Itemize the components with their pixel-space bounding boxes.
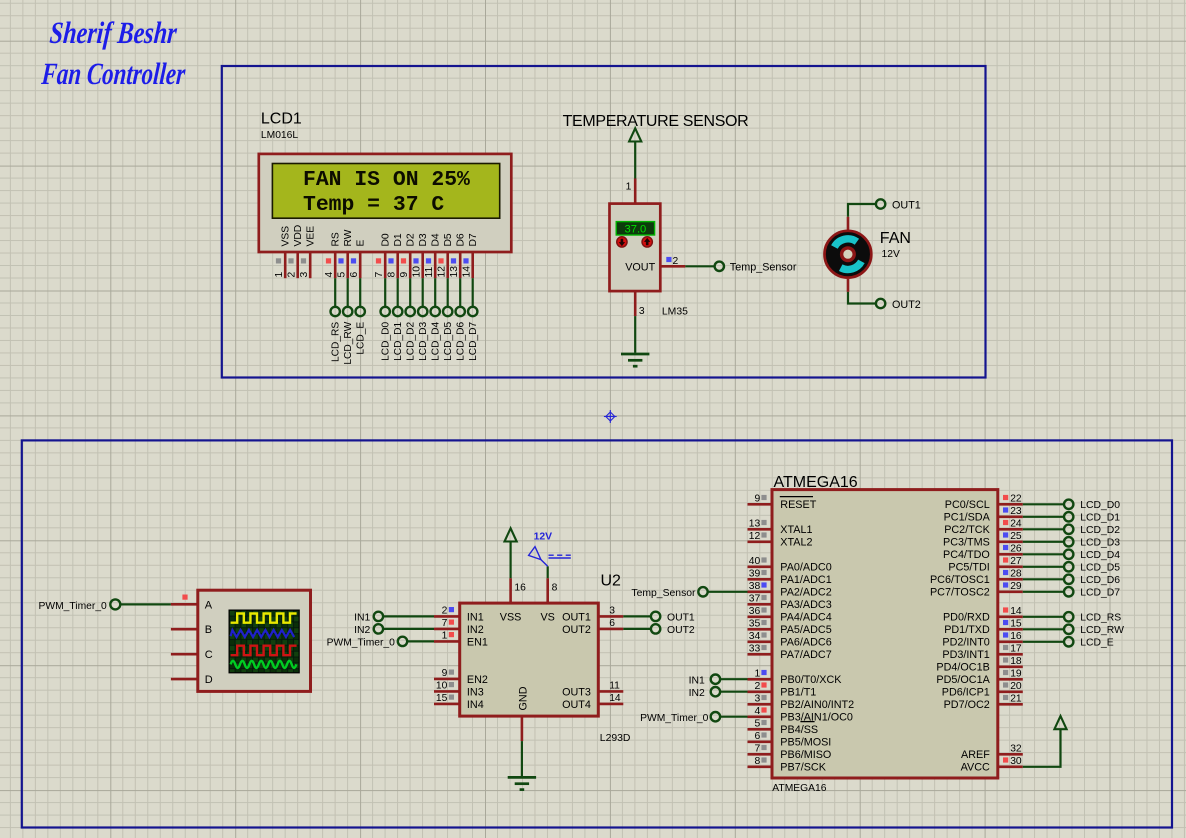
svg-text:TEMPERATURE SENSOR: TEMPERATURE SENSOR (563, 113, 749, 130)
U2 pin 1 (EN1) (434, 640, 460, 643)
svg-text:15: 15 (1010, 618, 1022, 629)
ATMEGA16 pin 18 (PD4/OC1B) (998, 665, 1023, 668)
svg-text:LCD_D7: LCD_D7 (1080, 588, 1120, 599)
ATMEGA16 pin 38 state square (761, 582, 766, 587)
ATMEGA16 pin 21 state square (1003, 695, 1008, 700)
svg-text:12V: 12V (882, 249, 900, 260)
svg-text:VS: VS (540, 612, 554, 624)
svg-text:16: 16 (514, 582, 526, 593)
ATMEGA16 pin 7 state square (761, 745, 766, 750)
wire IN1 to ATMEGA pin 1 (720, 678, 747, 680)
ATMEGA16 pin 9 state square (761, 495, 766, 500)
svg-text:12: 12 (749, 531, 761, 542)
svg-text:PD5/OC1A: PD5/OC1A (936, 674, 990, 686)
svg-text:PWM_Timer_0: PWM_Timer_0 (327, 638, 396, 649)
svg-text:GND: GND (517, 686, 529, 710)
U2 pin 9 (EN2) (434, 678, 460, 681)
terminal LCD_D1 (393, 307, 402, 316)
svg-text:PA5/ADC5: PA5/ADC5 (780, 624, 831, 636)
wire Temp_Sensor to ATMEGA pin 38 (708, 591, 748, 593)
svg-text:1: 1 (442, 630, 448, 641)
svg-text:OUT1: OUT1 (562, 611, 591, 623)
terminal LCD_D7 (468, 307, 477, 316)
terminal LCD_D4 (mcu side) (1064, 550, 1073, 559)
svg-text:E: E (355, 240, 366, 247)
ATMEGA16 pin 16 state square (1003, 632, 1008, 637)
ATMEGA16 pin 3 (PB2/AIN0/INT2) (748, 703, 773, 706)
ATMEGA16 pin 28 state square (1003, 570, 1008, 575)
LCD1 pin 4 (334, 252, 337, 278)
svg-text:IN1: IN1 (354, 613, 370, 624)
terminal IN1 (driver) (374, 612, 383, 621)
svg-text:C: C (205, 649, 213, 661)
wire LM35 pin 2 to terminal Temp_Sensor (685, 265, 714, 267)
svg-text:15: 15 (436, 693, 448, 704)
svg-text:FAN IS ON 25%: FAN IS ON 25% (303, 168, 470, 192)
ATMEGA16 pin 4 (PB3/AIN1/OC0) (748, 715, 773, 718)
terminal OUT2 (driver) (651, 624, 660, 633)
svg-text:LCD_D3: LCD_D3 (418, 321, 429, 360)
svg-text:7: 7 (374, 272, 385, 278)
ATMEGA16 pin 32 (AREF) (998, 753, 1023, 756)
svg-text:LCD_D6: LCD_D6 (456, 321, 467, 360)
svg-text:PB7/SCK: PB7/SCK (780, 762, 826, 774)
svg-text:13: 13 (449, 266, 460, 278)
U2 pin 11 (OUT3) (598, 690, 623, 693)
svg-text:Fan Controller: Fan Controller (40, 57, 187, 91)
svg-text:8: 8 (386, 272, 397, 278)
svg-text:40: 40 (749, 556, 761, 567)
terminal LCD_D4 (431, 307, 440, 316)
terminal LCD_D7 (mcu side) (1064, 587, 1073, 596)
LCD1 pin 5 (346, 252, 349, 278)
graph pin A (171, 603, 198, 606)
LCD1 pin 6 state square (351, 258, 356, 263)
top sub-circuit frame (222, 66, 986, 378)
wire PWM_Timer_0 to ATMEGA pin 4 (720, 716, 747, 718)
LCD1 pin 14 state square (463, 258, 468, 263)
ATMEGA16 pin 27 (PC5/TDI) (998, 565, 1023, 568)
mcu ATMEGA16 body (772, 490, 998, 778)
svg-text:6: 6 (609, 618, 615, 629)
svg-text:2: 2 (673, 256, 679, 267)
ATMEGA16 pin 2 (PB1/T1) (748, 690, 773, 693)
svg-text:3: 3 (609, 605, 615, 616)
ATMEGA16 pin 26 state square (1003, 545, 1008, 550)
svg-text:21: 21 (1010, 693, 1022, 704)
terminal IN1 (mcu side) (711, 675, 720, 684)
bottom sub-circuit frame (22, 440, 1172, 827)
ATMEGA16 pin 15 (PD1/TXD) (998, 628, 1023, 631)
ATMEGA16 pin 23 (PC1/SDA) (998, 515, 1023, 518)
svg-text:LCD1: LCD1 (261, 111, 302, 128)
ATMEGA16 pin 19 (PD5/OC1A) (998, 678, 1023, 681)
terminal LCD_RS (mcu side) (1064, 612, 1073, 621)
LCD1 pin 6 (359, 252, 362, 278)
LCD1 screen (272, 164, 499, 219)
svg-text:20: 20 (1010, 681, 1022, 692)
svg-text:PA6/ADC6: PA6/ADC6 (780, 637, 831, 649)
svg-text:D6: D6 (455, 233, 466, 246)
svg-text:5: 5 (336, 272, 347, 278)
LCD1 pin 11 (434, 252, 437, 278)
graph pin C (171, 653, 198, 656)
ground (driver) (508, 776, 536, 779)
terminal LCD_D3 (mcu side) (1064, 537, 1073, 546)
svg-text:18: 18 (1010, 656, 1022, 667)
fan pin + (847, 217, 850, 231)
svg-text:1: 1 (274, 272, 285, 278)
svg-text:PB3/AIN1/OC0: PB3/AIN1/OC0 (780, 712, 853, 724)
analyser screen (229, 610, 299, 673)
svg-text:PC2/TCK: PC2/TCK (944, 524, 990, 536)
svg-text:LCD_D3: LCD_D3 (1080, 538, 1120, 549)
ATMEGA16 pin 26 (PC4/TDO) (998, 553, 1023, 556)
svg-text:PB4/SS: PB4/SS (780, 724, 818, 736)
svg-text:32: 32 (1010, 743, 1022, 754)
ground (sensor) (621, 353, 649, 356)
svg-text:VEE: VEE (305, 226, 316, 247)
LCD1 pin 3 state square (301, 258, 306, 263)
ATMEGA16 pin 16 (PD2/INT0) (998, 640, 1023, 643)
svg-text:D: D (205, 674, 213, 686)
sensor U? LM35 body (610, 204, 661, 292)
svg-text:D4: D4 (430, 233, 441, 246)
svg-text:AVCC: AVCC (961, 762, 990, 774)
ATMEGA16 pin 33 (PA7/ADC7) (748, 653, 773, 656)
svg-text:Sherif Beshr: Sherif Beshr (48, 16, 179, 50)
terminal LCD_RS (331, 307, 340, 316)
ATMEGA16 pin 33 state square (761, 645, 766, 650)
svg-text:Temp_Sensor: Temp_Sensor (730, 262, 797, 274)
ATMEGA16 pin 24 (PC2/TCK) (998, 528, 1023, 531)
svg-text:IN1: IN1 (467, 611, 484, 623)
ATMEGA16 pin 5 state square (761, 720, 766, 725)
svg-text:L293D: L293D (600, 733, 631, 744)
svg-text:14: 14 (461, 266, 472, 278)
wire ATMEGA16 pin 22 to terminal LCD_D0 (1023, 503, 1064, 505)
svg-text:16: 16 (1010, 631, 1022, 642)
svg-text:PD7/OC2: PD7/OC2 (944, 699, 990, 711)
svg-text:D7: D7 (468, 233, 479, 246)
svg-text:OUT2: OUT2 (562, 624, 591, 636)
svg-text:PB2/AIN0/INT2: PB2/AIN0/INT2 (780, 699, 854, 711)
svg-text:37: 37 (749, 593, 761, 604)
U2 pin 8 (VS) (546, 578, 549, 603)
LCD1 pin 8 (396, 252, 399, 278)
LCD1 pin 12 state square (438, 258, 443, 263)
svg-text:D1: D1 (393, 233, 404, 246)
terminal LCD_E (mcu side) (1064, 637, 1073, 646)
wire LCD1 pin 4 to terminal LCD_RS (334, 278, 336, 307)
LCD1 pin 7 (384, 252, 387, 278)
svg-text:12: 12 (436, 266, 447, 278)
wire LM35 pin 3 to ground (634, 316, 636, 353)
wire VS to 12V power terminal (547, 566, 549, 578)
graph pin D (171, 678, 198, 681)
terminal OUT1 (fan) (876, 199, 885, 208)
ATMEGA16 pin 39 state square (761, 570, 766, 575)
wire LCD1 pin 10 to terminal LCD_D3 (422, 278, 424, 307)
svg-text:PD3/INT1: PD3/INT1 (942, 649, 989, 661)
svg-text:LCD_D5: LCD_D5 (443, 321, 454, 360)
LM35 pin 2 (660, 265, 685, 268)
svg-text:LCD_D5: LCD_D5 (1080, 563, 1120, 574)
wire ATMEGA16 pin 23 to terminal LCD_D1 (1023, 516, 1064, 518)
LM35 pin 1 (634, 179, 637, 204)
LCD1 pin 2 (296, 252, 299, 278)
terminal PWM_Timer_0 (generator) (110, 599, 120, 609)
terminal LCD_D5 (443, 307, 452, 316)
svg-text:33: 33 (749, 643, 761, 654)
svg-text:12V: 12V (534, 531, 553, 542)
ATMEGA16 pin 3 state square (761, 695, 766, 700)
wire ATMEGA16 pin 27 to terminal LCD_D5 (1023, 566, 1064, 568)
svg-text:OUT4: OUT4 (562, 699, 591, 711)
svg-text:EN1: EN1 (467, 636, 488, 648)
terminal OUT2 (fan) (876, 299, 885, 308)
SS overline (800, 721, 814, 723)
svg-text:PB0/T0/XCK: PB0/T0/XCK (780, 674, 842, 686)
waveform channel A (yellow) (231, 614, 297, 623)
svg-text:1: 1 (754, 668, 760, 679)
svg-text:37.0: 37.0 (625, 224, 647, 236)
svg-text:22: 22 (1010, 493, 1022, 504)
ATMEGA16 pin 12 state square (761, 532, 766, 537)
svg-text:39: 39 (749, 568, 761, 579)
ATMEGA16 pin 37 state square (761, 595, 766, 600)
svg-text:7: 7 (442, 618, 448, 629)
svg-text:VOUT: VOUT (625, 261, 655, 273)
ATMEGA16 pin 4 state square (761, 707, 766, 712)
svg-text:14: 14 (609, 693, 621, 704)
ATMEGA16 pin 40 state square (761, 557, 766, 562)
ATMEGA16 pin 6 state square (761, 732, 766, 737)
ATMEGA16 pin 20 state square (1003, 682, 1008, 687)
wire ATMEGA16 pin 29 to terminal LCD_D7 (1023, 591, 1064, 593)
svg-text:LCD_RW: LCD_RW (1080, 625, 1124, 636)
wire IN2 to U2 pin 7 (383, 628, 434, 630)
svg-text:2: 2 (286, 272, 297, 278)
LM35 pin 2 state square (666, 257, 671, 262)
wire ATMEGA16 pin 15 to terminal LCD_RW (1023, 628, 1064, 630)
terminal LCD_RW (343, 307, 352, 316)
svg-text:19: 19 (1010, 668, 1022, 679)
svg-text:2: 2 (754, 681, 760, 692)
ATMEGA16 pin 34 state square (761, 632, 766, 637)
terminal LCD_E (356, 307, 365, 316)
svg-text:7: 7 (754, 743, 760, 754)
terminal LCD_D6 (mcu side) (1064, 575, 1073, 584)
terminal LCD_D1 (mcu side) (1064, 512, 1073, 521)
svg-text:LCD_RS: LCD_RS (1080, 613, 1121, 624)
svg-text:LM016L: LM016L (261, 130, 298, 141)
svg-text:3: 3 (639, 306, 645, 317)
svg-text:PC1/SDA: PC1/SDA (944, 512, 991, 524)
svg-text:OUT2: OUT2 (892, 299, 921, 311)
svg-text:8: 8 (754, 756, 760, 767)
U2 pin 1 state square (449, 632, 454, 637)
origin marker (604, 410, 617, 423)
wire U2 GND to ground (521, 741, 523, 776)
svg-text:PA1/ADC1: PA1/ADC1 (780, 574, 831, 586)
ATMEGA16 pin 27 state square (1003, 557, 1008, 562)
svg-text:2: 2 (442, 605, 448, 616)
ATMEGA16 pin 17 (PD3/INT1) (998, 653, 1023, 656)
svg-text:RS: RS (330, 232, 341, 246)
svg-text:RESET: RESET (780, 499, 816, 511)
power symbol above LM35 (629, 128, 641, 141)
wire LCD1 pin 12 to terminal LCD_D5 (447, 278, 449, 307)
svg-text:IN2: IN2 (354, 625, 370, 636)
svg-text:OUT3: OUT3 (562, 686, 591, 698)
svg-text:9: 9 (442, 668, 448, 679)
LCD1 pin 2 state square (288, 258, 293, 263)
svg-text:PWM_Timer_0: PWM_Timer_0 (640, 713, 709, 724)
LCD1 pin 11 state square (426, 258, 431, 263)
ATMEGA16 pin 25 (PC3/TMS) (998, 540, 1023, 543)
terminal Temp_Sensor (sensor) (715, 262, 724, 271)
terminal LCD_D2 (mcu side) (1064, 525, 1073, 534)
svg-text:38: 38 (749, 581, 761, 592)
svg-text:LCD_D1: LCD_D1 (1080, 513, 1120, 524)
wire ATMEGA16 pin 26 to terminal LCD_D4 (1023, 553, 1064, 555)
svg-text:17: 17 (1010, 643, 1022, 654)
svg-text:VDD: VDD (293, 225, 304, 247)
svg-text:10: 10 (436, 680, 448, 691)
wire LCD1 pin 5 to terminal LCD_RW (347, 278, 349, 307)
power symbol above U2 (505, 528, 517, 541)
ATMEGA16 pin 9 (RESET) (748, 503, 773, 506)
LCD1 pin 7 state square (376, 258, 381, 263)
svg-text:9: 9 (754, 493, 760, 504)
ATMEGA16 pin 40 (PA0/ADC0) (748, 565, 773, 568)
svg-text:PA3/ADC3: PA3/ADC3 (780, 599, 831, 611)
svg-text:LCD_RS: LCD_RS (331, 322, 342, 362)
svg-text:LCD_D7: LCD_D7 (468, 321, 479, 360)
terminal PWM_Timer_0 (driver) (398, 637, 407, 646)
svg-text:LCD_D0: LCD_D0 (1080, 500, 1120, 511)
ATMEGA16 pin 35 (PA5/ADC5) (748, 628, 773, 631)
wire LCD1 pin 9 to terminal LCD_D2 (409, 278, 411, 307)
LCD1 pin 9 state square (401, 258, 406, 263)
wire ATMEGA16 pin 24 to terminal LCD_D2 (1023, 528, 1064, 530)
wire AVCC to power symbol (1023, 729, 1061, 767)
svg-text:PB1/T1: PB1/T1 (780, 687, 816, 699)
svg-text:LCD_D2: LCD_D2 (406, 321, 417, 360)
svg-text:3: 3 (299, 272, 310, 278)
svg-text:PD2/INT0: PD2/INT0 (942, 637, 989, 649)
wire VSS to power symbol (510, 542, 512, 579)
svg-text:PC7/TOSC2: PC7/TOSC2 (930, 587, 990, 599)
wire OUT1 to fan pin + (848, 204, 876, 217)
LCD1 pin 13 (459, 252, 462, 278)
U2 pin 2 state square (449, 607, 454, 612)
ATMEGA16 pin 22 state square (1003, 495, 1008, 500)
svg-text:PA2/ADC2: PA2/ADC2 (780, 587, 831, 599)
LM35 down button (617, 237, 627, 247)
ATMEGA16 pin 23 state square (1003, 507, 1008, 512)
U2 pin GND lead (521, 716, 524, 741)
svg-text:Temp = 37 C: Temp = 37 C (303, 193, 444, 217)
fan pin - (847, 278, 850, 292)
svg-text:1: 1 (626, 182, 632, 193)
svg-text:ATMEGA16: ATMEGA16 (772, 783, 826, 794)
svg-text:PB6/MISO: PB6/MISO (780, 749, 831, 761)
svg-text:EN2: EN2 (467, 674, 488, 686)
ATMEGA16 pin 13 state square (761, 520, 766, 525)
U2 pin 3 (OUT1) (598, 615, 623, 618)
ATMEGA16 pin 25 state square (1003, 532, 1008, 537)
wire LCD1 pin 6 to terminal LCD_E (359, 278, 361, 307)
svg-text:35: 35 (749, 618, 761, 629)
svg-text:PA4/ADC4: PA4/ADC4 (780, 612, 831, 624)
svg-text:D2: D2 (405, 233, 416, 246)
ATMEGA16 pin 13 (XTAL1) (748, 528, 773, 531)
wire LCD1 pin 13 to terminal LCD_D6 (459, 278, 461, 307)
svg-text:PC3/TMS: PC3/TMS (943, 537, 990, 549)
waveform channel D (green) (231, 661, 297, 668)
svg-text:10: 10 (411, 266, 422, 278)
svg-text:LM35: LM35 (662, 306, 688, 317)
svg-text:29: 29 (1010, 581, 1022, 592)
wire LCD1 pin 8 to terminal LCD_D1 (397, 278, 399, 307)
terminal PWM_Timer_0 (mcu side) (711, 712, 720, 721)
svg-text:IN1: IN1 (689, 676, 705, 687)
svg-text:PD1/TXD: PD1/TXD (944, 624, 990, 636)
terminal OUT1 (driver) (651, 612, 660, 621)
svg-text:36: 36 (749, 606, 761, 617)
ATMEGA16 pin 19 state square (1003, 670, 1008, 675)
U2 pin 15 state square (449, 695, 454, 700)
svg-text:D3: D3 (418, 233, 429, 246)
svg-text:IN4: IN4 (467, 699, 484, 711)
svg-text:PA7/ADC7: PA7/ADC7 (780, 649, 831, 661)
svg-text:D5: D5 (443, 233, 454, 246)
wire LCD1 pin 11 to terminal LCD_D4 (434, 278, 436, 307)
sheet title line 2 (40, 57, 187, 91)
svg-text:FAN: FAN (880, 230, 911, 247)
svg-text:XTAL1: XTAL1 (780, 524, 812, 536)
svg-text:PWM_Timer_0: PWM_Timer_0 (39, 601, 108, 612)
svg-text:VSS: VSS (280, 226, 291, 247)
wire PWM_Timer_0 to graph pin A (121, 603, 171, 605)
svg-text:24: 24 (1010, 518, 1022, 529)
ATMEGA16 pin 29 state square (1003, 582, 1008, 587)
U2 pin 6 (OUT2) (598, 628, 623, 631)
waveform channel B (blue) (231, 630, 295, 637)
svg-text:PB5/MOSI: PB5/MOSI (780, 737, 831, 749)
LCD1 pin 1 state square (276, 258, 281, 263)
svg-text:PC4/TDO: PC4/TDO (943, 549, 990, 561)
svg-text:LCD_D6: LCD_D6 (1080, 575, 1120, 586)
terminal LCD_D3 (418, 307, 427, 316)
LCD1 pin 12 (446, 252, 449, 278)
ATMEGA16 pin 34 (PA6/ADC6) (748, 640, 773, 643)
LM35 pin 3 (634, 291, 637, 316)
LCD1 pin 10 state square (413, 258, 418, 263)
svg-text:25: 25 (1010, 531, 1022, 542)
svg-text:LCD_D2: LCD_D2 (1080, 525, 1120, 536)
svg-text:OUT1: OUT1 (892, 199, 921, 211)
svg-text:A: A (205, 599, 213, 611)
svg-text:27: 27 (1010, 556, 1022, 567)
svg-text:26: 26 (1010, 543, 1022, 554)
wire PWM_Timer_0 to U2 pin 1 (407, 640, 434, 642)
ATMEGA16 pin 20 (PD6/ICP1) (998, 690, 1023, 693)
ATMEGA16 pin 6 (PB5/MOSI) (748, 740, 773, 743)
ATMEGA16 pin 37 (PA3/ADC3) (748, 603, 773, 606)
